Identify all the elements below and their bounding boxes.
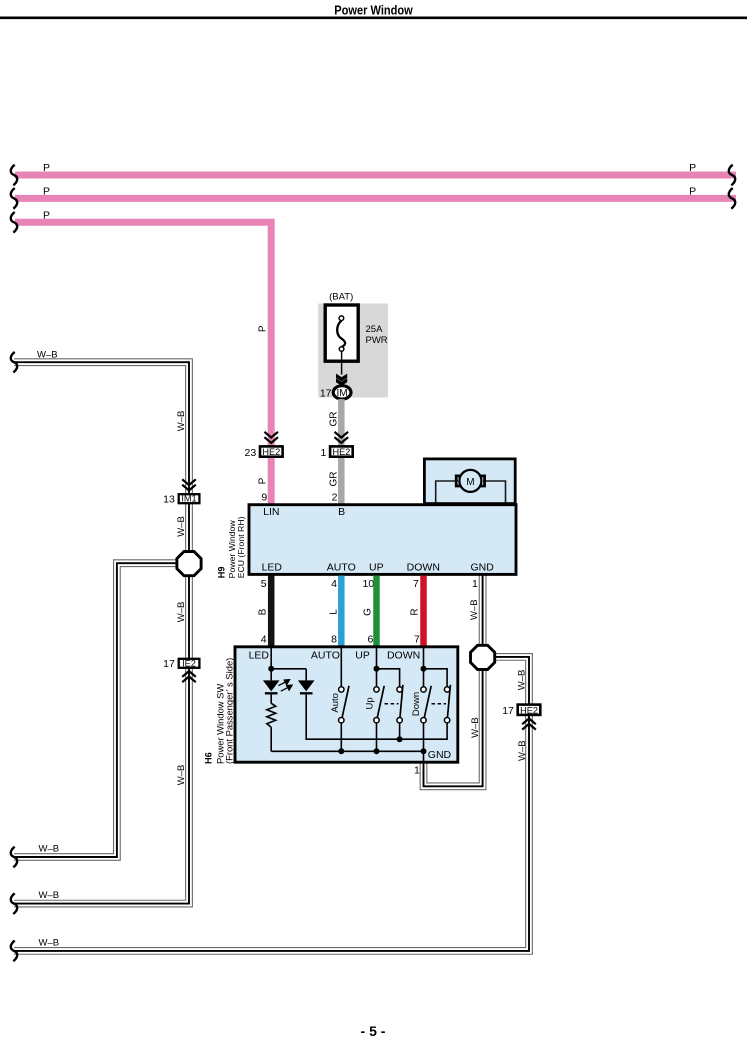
break symbol top-left W-B [11,352,17,373]
svg-text:P: P [258,325,269,332]
arrow chevron into IM1 [182,479,196,490]
svg-text:DOWN: DOWN [387,649,420,661]
junction dot LED branch [268,666,274,672]
svg-text:(Front Passenger’ s Side): (Front Passenger’ s Side) [224,658,235,764]
motor brush right bracket [480,476,484,486]
connector IE2 [179,659,200,668]
LED D1 [263,669,280,704]
switch box H6 [235,647,458,762]
svg-text:LIN: LIN [263,506,279,518]
wire resistor to GND bus [270,727,272,751]
svg-text:6: 6 [368,634,374,646]
svg-text:P: P [689,185,696,197]
motor wire loop [436,481,506,503]
connector HE2 (gray wire) [330,446,353,456]
resistor (LED series) [267,703,276,727]
wire LED pin internal [271,647,306,669]
wire B black ECU to SW [268,576,275,647]
break symbol bus2 left [11,188,17,209]
svg-text:W–B: W–B [176,602,187,623]
junction dot Auto-GND [338,748,344,754]
W-B wire bottom 2 break [11,893,17,914]
svg-text:W–B: W–B [39,937,60,948]
junction dot LED return / UP right [397,736,403,742]
svg-text:B: B [338,506,345,518]
svg-text:1: 1 [472,578,478,590]
wire LED2 return [306,695,447,740]
break symbol bus1 right [729,165,735,186]
wire Auto to GND bus [340,723,342,751]
svg-text:ECU (Front RH): ECU (Front RH) [236,516,246,578]
svg-text:P: P [258,477,269,484]
wire fuse to IM [341,352,343,375]
svg-text:17: 17 [502,705,514,717]
junction octagon right [471,645,495,669]
svg-text:LED: LED [249,649,270,661]
svg-text:13: 13 [163,494,175,506]
svg-text:W–B: W–B [517,740,528,761]
title underline [0,16,747,19]
svg-text:GND: GND [428,749,452,761]
W-B wire left main run [14,362,189,903]
fuse block shading [318,304,388,398]
fuse element top circle [339,316,344,321]
break symbol bottom wire 3 [11,941,17,962]
switch Down left contact [421,686,431,723]
svg-text:LED: LED [262,561,283,573]
LED1 emission arrows [279,680,293,692]
svg-text:G: G [363,608,374,616]
svg-text:P: P [43,185,50,197]
junction dot Down-GND [421,748,427,754]
svg-text:Auto: Auto [330,693,341,713]
svg-text:2: 2 [332,492,338,504]
svg-text:8: 8 [331,634,337,646]
arrow chevron out of HE2 right (up) [522,719,536,730]
svg-text:P: P [43,209,50,221]
svg-text:UP: UP [369,561,384,573]
break symbol bus2 right [729,188,735,209]
GND bus inside SW [271,750,423,752]
svg-text:23: 23 [245,447,257,459]
svg-text:10: 10 [363,578,375,590]
svg-text:1: 1 [414,765,420,777]
svg-text:(BAT): (BAT) [329,292,353,303]
LED D2 [298,669,315,694]
wire DOWN pin internal and branch [424,647,448,687]
svg-text:GND: GND [471,561,495,573]
svg-text:W–B: W–B [517,670,528,691]
svg-text:DOWN: DOWN [407,561,440,573]
mechanical link Down (dashed) [432,703,447,705]
svg-text:Power Window: Power Window [334,3,413,18]
svg-text:5: 5 [261,578,267,590]
mechanical link Up (dashed) [385,703,399,705]
arrow solid into IM [336,374,347,382]
svg-text:GR: GR [329,472,340,487]
switch Auto contact [339,686,349,723]
svg-text:AUTO: AUTO [311,649,340,661]
svg-text:W–B: W–B [176,411,187,432]
svg-text:17: 17 [163,658,175,670]
op ECU box H9 [249,505,516,575]
svg-text:1: 1 [321,447,327,459]
wire L blue [338,576,345,647]
svg-text:Down: Down [411,692,422,716]
svg-text:7: 7 [413,578,419,590]
svg-text:W–B: W–B [469,599,480,620]
svg-text:PWR: PWR [366,335,388,346]
svg-text:4: 4 [261,634,267,646]
svg-text:GR: GR [329,412,340,427]
junction dot UP branch [374,666,380,672]
svg-text:IM: IM [337,388,348,399]
connector HE2 right [518,705,541,715]
svg-text:H9: H9 [217,567,227,579]
arrow chevron into HE2 (pink) [264,432,278,443]
arrow chevron into HE2 (gray) [335,432,349,443]
wire AUTO pin internal [340,647,342,687]
svg-text:B: B [257,608,268,615]
svg-text:IE2: IE2 [182,658,196,668]
svg-text:7: 7 [414,634,420,646]
svg-text:H6: H6 [204,752,214,764]
wire UP pin internal and branch [377,647,400,687]
svg-text:L: L [329,609,340,615]
svg-text:W–B: W–B [470,717,481,738]
svg-text:UP: UP [355,649,370,661]
wire GR (gray) from IM to ECU pin B [338,399,345,503]
break symbol bus3 left [11,212,17,233]
svg-text:R: R [410,608,421,615]
motor box [424,459,515,504]
arrow chevron out of IE2 (up) [182,671,196,682]
connector IM oval [333,386,351,399]
svg-text:W–B: W–B [39,890,60,901]
motor M circle [459,470,481,492]
W-B wire H6 GND loop to junction [424,664,483,786]
wire G green [373,576,380,647]
wire P bus 1 (horizontal pink) [15,172,736,179]
svg-text:W–B: W–B [37,349,58,360]
svg-text:17: 17 [320,388,332,400]
motor brush left bracket [456,476,460,486]
svg-text:W–B: W–B [176,516,187,537]
fuse element squiggle [337,321,345,347]
break symbol bus1 left [11,165,17,186]
svg-text:4: 4 [331,578,337,590]
connector IM1 [179,494,200,503]
fuse element bottom circle [339,347,344,352]
switch Up right contact [397,685,403,723]
svg-text:IM1: IM1 [181,494,196,504]
svg-text:W–B: W–B [39,844,60,855]
W-B wire octagon-left branch to bottom wire 1 [14,563,180,857]
break symbol bottom wire 1 [11,847,17,868]
svg-text:Up: Up [365,697,376,709]
fuse 25A PWR box [325,305,358,361]
switch Down right contact [444,685,450,723]
wire Down to GND bus [423,723,425,751]
junction dot DOWN branch [421,666,427,672]
svg-text:W–B: W–B [176,765,187,786]
switch Up left contact [374,686,384,723]
wire Up contacts down [377,723,400,751]
svg-text:P: P [43,162,50,174]
wire P bus 3 (pink, turns down to ECU LIN) [15,222,271,503]
W-B wire ECU GND to junction [479,575,487,650]
wire R red [420,576,427,647]
wire GND exit [423,751,425,763]
svg-text:P: P [689,162,696,174]
W-B wire junction right branch to HE2 and bottom wire 3 [14,657,529,951]
svg-text:25A: 25A [366,324,384,335]
connector HE2 (pink wire) [260,446,283,456]
junction octagon left [177,552,201,576]
wire P bus 2 (horizontal pink) [15,195,736,202]
svg-text:HE2: HE2 [262,447,280,457]
svg-text:- 5 -: - 5 - [361,1023,386,1039]
svg-text:AUTO: AUTO [327,561,356,573]
svg-text:9: 9 [261,492,267,504]
svg-text:M: M [466,477,474,488]
svg-text:HE2: HE2 [520,705,538,715]
junction dot Up-GND [374,748,380,754]
svg-text:HE2: HE2 [332,447,350,457]
